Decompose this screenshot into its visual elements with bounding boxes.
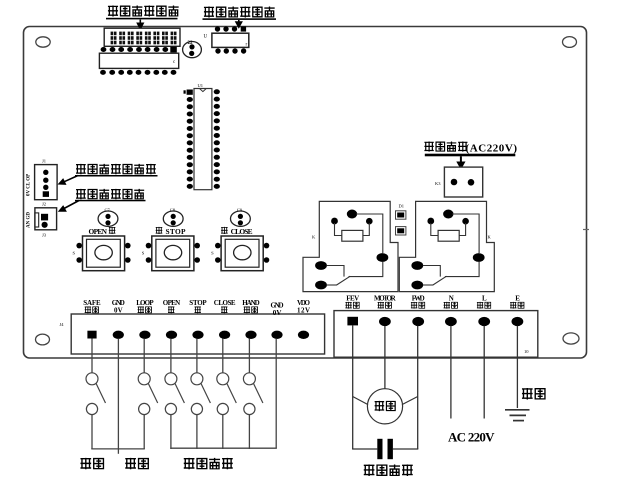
- switch lever: [227, 383, 237, 403]
- terminal GND2 pad: [271, 331, 282, 339]
- svg-text:CLOSE: CLOSE: [231, 227, 253, 236]
- bus wire line-control group: [170, 447, 276, 449]
- svg-text:K: K: [312, 235, 316, 240]
- wire coil left pad to coil: [431, 223, 438, 236]
- terminal labels VDO 12V: [297, 299, 311, 314]
- wire common pad down to contact bar: [349, 262, 383, 277]
- svg-text:MOTOR: MOTOR: [374, 295, 397, 303]
- external switch for SAFE: top contact: [86, 373, 98, 385]
- bottom contact: [86, 403, 97, 414]
- capacitor C9 above button CLOSE: [231, 208, 251, 227]
- wire L terminal down: [483, 326, 485, 419]
- IC U2 pin row below: [100, 70, 176, 75]
- connector J1 silk text (vertical): [27, 174, 32, 196]
- svg-text:10: 10: [524, 349, 529, 354]
- relay K1 contact lever: [337, 276, 351, 285]
- trimmer capacitor 22 (ellipse with two pads): [183, 41, 202, 58]
- terminal STOP pad: [192, 331, 203, 339]
- circuit board outline: [24, 27, 587, 359]
- svg-text:S: S: [73, 251, 76, 256]
- bottom contact: [244, 403, 255, 414]
- screw hole top-right: [563, 37, 577, 48]
- relay K1 coil right pad: [366, 218, 373, 225]
- screw hole top-left: [36, 37, 50, 47]
- screw hole bottom-right: [563, 333, 579, 344]
- arrow to function DIP: [235, 20, 243, 29]
- diode D2 between relays: [396, 227, 406, 235]
- wire NC pad to contact: [327, 266, 345, 277]
- terminal labels OPEN 开: [163, 299, 180, 313]
- wire terminal HAND down to switch: [248, 339, 250, 373]
- MCU U1 right pins: [214, 89, 220, 189]
- terminal L pad: [478, 317, 490, 326]
- bottom contact: [217, 403, 228, 414]
- label 遥控天线接口 (remote antenna interface) with underline: [75, 189, 146, 202]
- terminal block J5 (high voltage): [334, 311, 538, 358]
- svg-text:C8: C8: [170, 208, 176, 213]
- svg-text:AC 220V: AC 220V: [448, 430, 495, 445]
- label 安全 (safety): [80, 458, 103, 470]
- wire FWD terminal down to capacitor bus: [417, 326, 419, 449]
- terminal labels L 火线: [477, 295, 491, 309]
- starting capacitor C (起动电容): [352, 439, 418, 459]
- external switch for STOP: top contact: [191, 373, 203, 385]
- svg-text:(AC220V): (AC220V): [466, 143, 518, 155]
- terminal FEV pad (square): [347, 317, 358, 326]
- label 地感 (loop sensor): [125, 458, 148, 470]
- wire MOTOR terminal down to motor: [384, 326, 386, 389]
- relay K1 coil left pad: [331, 218, 338, 225]
- external switch for HAND: top contact: [243, 373, 255, 385]
- bus wire 安全/地感 group: [91, 448, 145, 450]
- wire motor left lead to FEV wire: [353, 397, 368, 405]
- terminal block J4 (low voltage): [71, 314, 324, 354]
- arrow to DIP switch: [136, 20, 144, 31]
- terminal labels N 零线: [444, 295, 458, 309]
- earth ground symbol: [505, 410, 530, 421]
- wire terminal GND2 down: [275, 339, 277, 449]
- wire terminal CLOSE down to switch: [222, 339, 224, 373]
- wire terminal SAFE down to switch: [91, 339, 93, 373]
- external switch for CLOSE: top contact: [217, 373, 229, 385]
- terminal labels CLOSE 关: [214, 299, 236, 313]
- wire top pad to common pad: [356, 214, 383, 253]
- terminal labels MOTOR 马达: [374, 295, 397, 309]
- wire motor right lead to FWD wire: [402, 397, 418, 405]
- tick mark on board right edge: [583, 229, 589, 231]
- function DIP switch S2 body: [212, 33, 249, 47]
- bottom contact: [139, 403, 150, 414]
- wire NC pad to contact: [423, 266, 441, 277]
- terminal HAND pad: [245, 331, 256, 339]
- terminal CLOSE pad: [219, 331, 230, 339]
- terminal OPEN pad: [166, 331, 177, 339]
- switch lever: [175, 383, 185, 403]
- switch lever: [148, 383, 158, 403]
- connector J2 antenna interface: [35, 208, 57, 238]
- svg-text:C9: C9: [237, 208, 243, 213]
- DIP switch S1 address coding body: [104, 28, 180, 46]
- svg-text:SAFE: SAFE: [83, 299, 101, 307]
- wire coil left pad to coil: [335, 223, 342, 236]
- svg-text:OPEN: OPEN: [89, 227, 108, 236]
- terminal labels E 地线: [510, 295, 524, 309]
- diode D1 between relays: [396, 204, 406, 220]
- relay K2 common pad: [473, 253, 485, 262]
- svg-text:J2: J2: [42, 202, 46, 207]
- label 接地 (earth): [522, 388, 545, 400]
- terminal labels SAFE 安全: [83, 299, 101, 313]
- wire common pad down to contact bar: [445, 262, 479, 277]
- svg-text:S: S: [142, 251, 145, 256]
- svg-text:L: L: [482, 295, 487, 303]
- terminal FWD pad: [412, 317, 424, 326]
- terminal labels FWD 正转: [411, 295, 425, 309]
- svg-text:K: K: [488, 235, 492, 240]
- relay K2 NO pad: [411, 281, 423, 290]
- svg-text:0V CL OP: 0V CL OP: [27, 174, 32, 196]
- wire switch bottom down: [143, 415, 145, 449]
- terminal labels GND 0V: [112, 299, 125, 314]
- svg-text:STOP: STOP: [189, 299, 207, 307]
- svg-text:D1: D1: [399, 204, 405, 209]
- fan connector K3: [435, 167, 483, 197]
- wire coil right pad to coil: [459, 223, 465, 236]
- wire coil right pad to coil: [363, 223, 369, 236]
- relay K2 contact lever: [433, 276, 447, 285]
- svg-text:J1: J1: [42, 159, 46, 164]
- wire N terminal down: [450, 326, 452, 419]
- svg-text:U1: U1: [198, 83, 204, 88]
- switch lever: [201, 383, 211, 403]
- svg-text:J4: J4: [60, 322, 65, 327]
- relay K1 common pad: [377, 253, 389, 262]
- wire terminal STOP down to switch: [196, 339, 198, 373]
- relay K1 outline: [303, 201, 398, 291]
- wire top pad to common pad: [452, 214, 479, 253]
- bottom contact: [191, 403, 202, 414]
- connector J2 silk text (vertical): [27, 212, 32, 228]
- svg-text:K3: K3: [435, 181, 441, 186]
- svg-text:STOP: STOP: [166, 227, 186, 236]
- wire switch bottom down: [91, 415, 93, 449]
- push button STOP: [142, 236, 200, 271]
- label 遥控地址编码 (remote address coding) with underline: [106, 6, 179, 20]
- svg-text:N: N: [449, 295, 454, 303]
- svg-text:HAND: HAND: [242, 299, 259, 307]
- wire NO pad to lever: [423, 284, 434, 286]
- button STOP label: [156, 227, 186, 236]
- terminal labels LOOP 地感: [136, 299, 154, 313]
- svg-text:J3: J3: [42, 233, 47, 238]
- terminal LOOP pad: [139, 331, 150, 339]
- terminal SAFE pad (square): [87, 331, 96, 339]
- relay K2 coil body: [438, 230, 459, 241]
- svg-text:OPEN: OPEN: [163, 299, 180, 307]
- arrow to fan connector K3: [456, 156, 465, 170]
- svg-text:S: S: [211, 251, 214, 256]
- bottom contact: [165, 403, 176, 414]
- arrow to connector J1: [58, 176, 79, 185]
- relay K1 coil body: [342, 230, 363, 241]
- wire E terminal down to earth: [516, 326, 518, 408]
- svg-text:0V: 0V: [273, 309, 282, 317]
- external switch for LOOP: top contact: [138, 373, 150, 385]
- svg-text:0V: 0V: [114, 306, 123, 314]
- label 限位传感器接口 (limit sensor interface) with underline: [75, 164, 158, 177]
- solder pads row below DIP switch (pin row, last pin square): [101, 47, 177, 53]
- terminal N pad: [445, 317, 457, 326]
- relay K2 NC pad: [411, 261, 423, 270]
- switch lever: [96, 383, 106, 403]
- function DIP switch S2 top pin row (last pin square): [215, 26, 246, 31]
- label 风扇接口（AC220V） fan interface with underline: [424, 142, 517, 157]
- relay K1 NC pad: [315, 261, 327, 270]
- svg-text:FEV: FEV: [346, 295, 359, 303]
- terminal labels GND 0V (second): [271, 302, 284, 317]
- wire switch bottom down: [222, 415, 224, 449]
- svg-text:12V: 12V: [297, 306, 310, 314]
- connector J1 limit sensor interface: [35, 159, 58, 207]
- wire switch bottom down: [248, 415, 250, 449]
- function DIP switch S2 bottom pin row: [215, 48, 246, 53]
- wire switch bottom down: [170, 415, 172, 449]
- button CLOSE label: [221, 227, 253, 236]
- arrow to connector J2: [58, 201, 79, 212]
- MCU U1 body with notch: [194, 83, 212, 190]
- motor M (电机) circle: [367, 389, 402, 424]
- relay K2 coil right pad: [462, 218, 469, 225]
- push button OPEN: [73, 236, 131, 271]
- external switch for OPEN: top contact: [165, 373, 177, 385]
- relay K1 coil top pad: [347, 210, 357, 219]
- wire terminal OPEN down to switch: [170, 339, 172, 373]
- svg-text:LOOP: LOOP: [136, 299, 154, 307]
- terminal labels STOP 停: [189, 299, 207, 313]
- terminal labels HAND 手动: [242, 299, 259, 313]
- switch lever: [253, 383, 263, 403]
- svg-text:CLOSE: CLOSE: [214, 299, 236, 307]
- label 起动电容 (starting capacitor): [364, 464, 413, 476]
- svg-text:E: E: [515, 295, 520, 303]
- button OPEN label: [89, 227, 116, 236]
- wire FEV terminal down to capacitor bus: [352, 325, 354, 449]
- svg-text:U: U: [204, 35, 208, 40]
- wire terminal GND straight down: [117, 339, 119, 454]
- svg-text:C7: C7: [105, 208, 111, 213]
- terminal MOTOR pad: [379, 317, 391, 326]
- relay K2 coil left pad: [427, 218, 434, 225]
- wire NO pad to lever: [327, 284, 338, 286]
- DIP switch S1 actuators (8 columns): [111, 32, 177, 45]
- label 功能设置开关 (function setting switch) with underline: [203, 7, 277, 20]
- MCU U1 left pins (pin 1 square): [184, 90, 193, 189]
- label 线控开关 (wired switches): [184, 458, 233, 470]
- relay K1 NO pad: [315, 281, 327, 290]
- terminal VDO pad: [298, 331, 309, 339]
- terminal labels FEV 反转: [345, 295, 359, 309]
- terminal GND pad: [113, 331, 124, 339]
- relay K2 coil top pad: [443, 210, 453, 219]
- screw hole bottom-left: [36, 334, 50, 345]
- svg-text:FWD: FWD: [412, 295, 425, 303]
- terminal E pad: [512, 317, 524, 326]
- svg-text:AN GD: AN GD: [27, 212, 32, 228]
- IC U2 (encoder) body: [99, 53, 178, 68]
- wire switch bottom down: [196, 415, 198, 449]
- relay K2 outline: [399, 201, 494, 291]
- push button CLOSE: [211, 236, 269, 271]
- capacitor C8 above button STOP: [163, 208, 183, 227]
- wire terminal LOOP down to switch: [143, 339, 145, 373]
- capacitor C7 above button OPEN: [98, 208, 118, 227]
